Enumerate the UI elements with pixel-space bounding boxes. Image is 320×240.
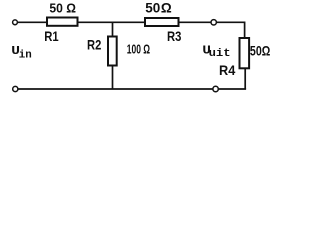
svg-text:50 Ω: 50 Ω [49,1,76,16]
svg-text:100 Ω: 100 Ω [127,43,150,57]
wire input to R1 [18,21,47,23]
resistor R1 [47,18,78,26]
wire R2 to bottom [112,66,114,90]
bottom wire left [18,88,213,90]
svg-text:50: 50 [145,1,160,16]
svg-text:50Ω: 50Ω [250,44,271,59]
terminal output top [211,20,216,25]
svg-text:R3: R3 [167,28,182,44]
svg-text:R1: R1 [44,28,59,44]
svg-text:uit: uit [209,48,231,60]
resistor R4 [240,38,250,68]
terminal output bottom [213,86,218,91]
svg-text:R2: R2 [87,37,101,53]
svg-text:in: in [19,50,32,62]
resistor R2 [108,37,117,66]
svg-text:R4: R4 [219,62,235,78]
wire output terminal to R4 corner [217,22,245,37]
terminal input top [13,20,18,25]
terminal input bottom [13,86,18,91]
bottom wire right [219,88,247,90]
wire R4 to bottom corner [244,68,246,89]
wire R3 to output terminal [180,21,211,23]
resistor R3 [145,18,179,26]
wire junction to R2 [112,22,114,35]
wire R1 to R3 [79,21,146,23]
svg-text:Ω: Ω [161,1,172,16]
